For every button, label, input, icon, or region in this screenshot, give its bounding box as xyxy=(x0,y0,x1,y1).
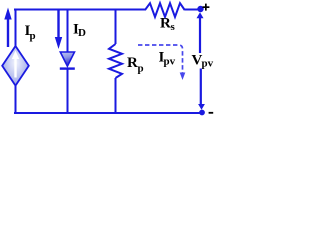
svg-text:pv: pv xyxy=(202,58,214,70)
label Rs xyxy=(160,16,176,34)
label - xyxy=(209,112,214,114)
wire Rp branch lower xyxy=(115,78,117,114)
label Ipv xyxy=(159,50,176,68)
svg-text:p: p xyxy=(30,30,36,42)
wire diode branch upper xyxy=(67,9,69,53)
node - (junction dot) xyxy=(199,110,205,116)
svg-text:p: p xyxy=(138,62,144,74)
arrow Vpv lower (points to - node) xyxy=(198,69,205,110)
diode D xyxy=(60,52,75,70)
wire left branch lower xyxy=(15,86,17,115)
wire Rp branch upper xyxy=(115,9,117,45)
svg-text:R: R xyxy=(127,55,138,71)
arrow Ipv (dashed current path) xyxy=(138,45,185,80)
wire left branch upper xyxy=(15,9,17,47)
label Vpv xyxy=(192,52,214,69)
wire Rs to node plus xyxy=(185,9,199,11)
svg-text:s: s xyxy=(171,21,176,33)
arrow Vpv upper (points to + node) xyxy=(197,12,204,53)
wire diode branch lower xyxy=(67,69,69,114)
arrow ID (current direction annotation) xyxy=(55,10,62,49)
resistor Rp xyxy=(109,44,122,78)
label Rp xyxy=(127,55,144,74)
svg-text:D: D xyxy=(78,27,86,39)
current source Ip (diamond) xyxy=(2,46,29,86)
arrow Ip (current direction annotation) xyxy=(4,8,11,48)
svg-text:R: R xyxy=(160,16,171,32)
svg-text:pv: pv xyxy=(164,55,176,67)
resistor Rs xyxy=(145,3,185,17)
node + (junction dot) xyxy=(197,6,203,12)
label ID xyxy=(73,21,86,39)
wire top xyxy=(14,9,146,11)
label + xyxy=(202,4,209,11)
wire bottom xyxy=(14,112,200,114)
label Ip xyxy=(25,23,36,42)
